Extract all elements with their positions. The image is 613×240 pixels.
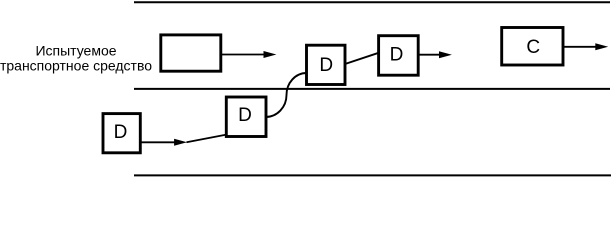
road edge line bottom	[134, 174, 611, 176]
arrow from test vehicle (head)	[264, 51, 277, 58]
connector D1 to D2	[345, 53, 379, 64]
vehicle D2 box (upper lane, right)	[379, 36, 419, 75]
svg-text:транспортное средство: транспортное средство	[0, 57, 152, 73]
arrow from C (head)	[595, 43, 608, 50]
vehicle D3 box (lower lane, left)	[103, 114, 140, 153]
svg-text:D: D	[390, 44, 404, 65]
svg-text:D: D	[114, 122, 128, 143]
lane divider line middle	[134, 88, 610, 90]
path D3 to D4 (head)	[174, 139, 187, 146]
svg-text:C: C	[526, 37, 540, 58]
svg-text:Испытуемое: Испытуемое	[35, 42, 116, 58]
test vehicle box	[161, 35, 221, 71]
lane-change S-curve D4 to D1	[266, 73, 307, 117]
road edge line top	[134, 1, 610, 3]
arrow from D2 (shaft)	[418, 54, 441, 56]
vehicle D4 box (lower lane, middle)	[226, 97, 266, 137]
svg-text:D: D	[238, 105, 252, 126]
svg-text:D: D	[319, 55, 333, 76]
arrow from test vehicle (shaft)	[222, 54, 265, 56]
path D3 to D4 (diagonal)	[187, 135, 227, 143]
arrow from D2 (head)	[439, 51, 452, 58]
vehicle C box	[502, 28, 563, 66]
arrow from C (shaft)	[563, 46, 597, 48]
path D3 to D4 (shaft)	[140, 141, 176, 143]
vehicle D1 box (upper lane, left)	[307, 45, 346, 84]
